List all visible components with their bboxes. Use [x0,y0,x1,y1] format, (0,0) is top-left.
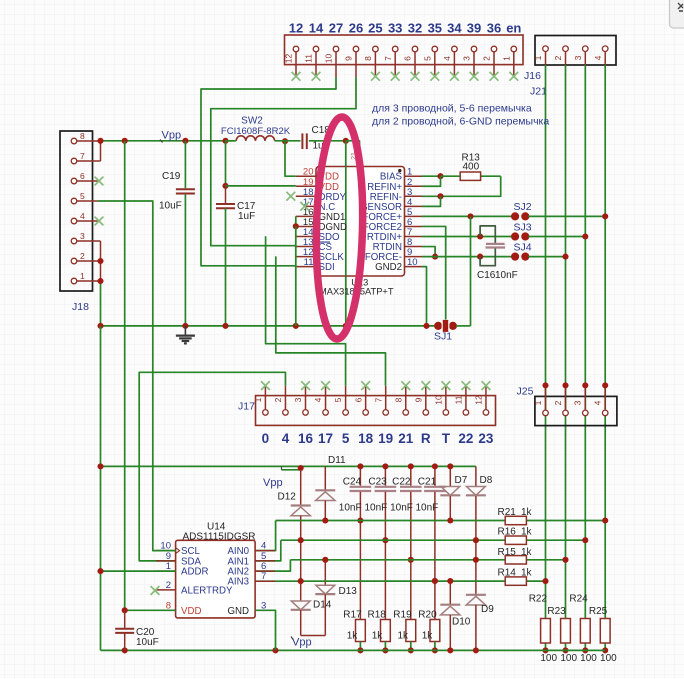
svg-text:SJ4: SJ4 [514,242,532,254]
J18 pin 1 [77,280,101,282]
J25 pin 4 [604,385,606,409]
resistor R16 leads [526,539,585,541]
J17 pin 12 [485,386,487,410]
U13 pin 16 stub [296,215,316,217]
J17 pin 5 [345,386,347,410]
svg-text:11: 11 [304,257,314,268]
junction Vpp rail / U13 VDD branch [282,138,288,144]
junction row / C24 [357,517,363,523]
junction GND rail / C19 [182,323,188,329]
J25 pin 2 [565,385,567,409]
svg-text:32: 32 [408,21,422,36]
junction AIN0 / D13col [322,517,328,523]
wire through U13 body (C18 node to GND) [345,167,347,277]
J18 pin 2 [77,260,101,262]
svg-text:19: 19 [378,431,393,446]
svg-text:R25: R25 [589,606,608,617]
U14 pin 4 stub [255,550,275,552]
wire U14 ADDR from GND vertical [101,570,176,572]
svg-text:C21: C21 [418,477,437,488]
svg-text:1uF: 1uF [238,211,255,222]
wire R18 to GND rail [384,642,386,651]
svg-text:34: 34 [447,21,462,36]
svg-text:10: 10 [407,257,418,268]
J16 pin 12 (12) [295,52,297,77]
J16 pin 8 no-connect X [371,72,380,81]
U14 pin 9 stub [156,560,176,562]
svg-text:GND: GND [227,606,249,617]
resistor R21 leads [526,520,605,522]
svg-text:R20: R20 [418,610,437,621]
resistor R23 [561,619,571,644]
svg-text:C16: C16 [477,270,496,281]
resistor R18 [381,620,391,642]
op-amp U14 body (ADS1115) [176,540,256,618]
svg-text:R22: R22 [529,594,548,605]
svg-text:R14: R14 [498,568,517,579]
J16 pin 2 no-connect X [490,72,499,81]
U13 pin 3 stub [405,195,423,197]
svg-text:10: 10 [324,54,334,64]
svg-text:J17: J17 [238,401,255,413]
junction GND rail / R22 [542,647,548,653]
capacitor C22 [410,466,412,485]
svg-text:2: 2 [273,397,283,402]
J17 pin 7 [385,386,387,410]
J16 pin 7 no-connect X [391,72,400,81]
J16 pin 6 no-connect X [411,72,420,81]
junction SJ4 / J21.2 [562,254,568,260]
J16 pin 11 no-connect X [312,72,321,81]
capacitor C18 [301,133,303,149]
J16 pin 9 (26) [355,52,357,77]
junction rail / C21 [432,463,438,469]
svg-text:1: 1 [533,55,543,60]
J17 pin 4 [325,386,327,410]
U14 pin 7 stub [255,580,275,582]
U13 pin 20 stub [296,175,316,177]
J16 pin 8 (25) [374,52,376,77]
capacitor C19 [184,141,186,188]
svg-text:33: 33 [388,21,402,36]
J17 pin 6 [365,386,367,410]
capacitor C20 [124,610,126,628]
svg-text:2: 2 [553,400,563,405]
svg-text:5: 5 [333,397,343,402]
junction J25 pin 4 [602,382,608,388]
svg-text:18: 18 [358,431,374,446]
svg-text:D14: D14 [313,600,332,611]
svg-text:10uF: 10uF [136,637,159,648]
svg-text:D11: D11 [328,455,346,466]
wire C22 to R19 [410,560,412,620]
wire SENSOR tie [422,196,441,206]
svg-text:4: 4 [593,55,603,60]
svg-text:10nF: 10nF [416,503,439,514]
svg-text:36: 36 [487,21,501,36]
svg-text:1k: 1k [521,547,533,558]
J17 pin 8 [405,386,407,410]
J18 pin 5 [77,200,98,202]
resistor R24 [580,619,590,644]
wire R23 bottom to GND rail [565,643,567,650]
wire J21 pin 2 vertical bus [565,65,567,620]
junction AIN0 / D7 [447,517,453,523]
svg-text:10nF: 10nF [495,270,518,281]
wire C18 to BIAS-node [309,140,346,142]
U14 pin 8 stub [156,609,176,611]
svg-text:SJ1: SJ1 [434,331,452,343]
wire Vpp rail [101,140,234,142]
svg-text:en: en [506,21,521,36]
resistor R20 [430,620,440,642]
J16 pin 1 (en) [513,52,515,77]
junction bottom rail / D9col [473,647,479,653]
svg-text:ADS1115IDGSR: ADS1115IDGSR [183,532,256,543]
solder jumper SJ1 [434,322,442,330]
J16 pin 10 (27) [335,52,337,77]
junction U14 VDD / Vpp [122,607,128,613]
junction rail / C22 [408,463,414,469]
J21 pin 2 [565,52,567,65]
wire C24 to R17 [359,521,361,620]
U13 pin 17 no-connect X [300,202,309,211]
junction GND rail / FORCE2-GND2 [423,323,429,329]
junction R14 / R22 bus [542,578,548,584]
svg-text:25: 25 [368,21,382,36]
U14 SCL clock mark [176,548,180,554]
junction BIAS/REFIN+ [437,173,443,179]
resistor R13 leads [441,175,461,177]
wire U14 SCL from J18.5 [98,201,176,551]
svg-text:R16: R16 [498,527,517,538]
svg-text:3: 3 [573,55,583,60]
resistor R19 [406,620,416,642]
wire J18 pin1 down to GND rail [100,281,102,326]
connector J17 box [256,396,496,426]
junction C17 / VDD19 wire [222,183,228,189]
U13 pin 4 stub [405,205,423,207]
svg-text:2: 2 [80,251,85,261]
J17 pin 11 [465,386,467,410]
junction bottom rail / U14 GND [272,647,278,653]
svg-text:6: 6 [80,171,85,181]
resistor R14 leads [526,580,545,582]
J16 pin 5 (35) [434,52,436,77]
U14 pin 5 stub [255,560,275,562]
diode D11 [324,466,326,490]
J16 pin 4 (34) [453,52,455,77]
svg-text:SJ3: SJ3 [514,221,532,233]
svg-text:12: 12 [284,54,294,64]
svg-text:3: 3 [462,56,472,61]
svg-text:9: 9 [344,56,354,61]
wire coil to C18 [275,140,301,142]
J17 pin 9 [425,386,427,410]
wire GND rail [101,325,436,327]
junction C18 node [343,138,349,144]
svg-text:Vpp: Vpp [263,477,283,489]
wire AIN2 row [290,559,505,561]
svg-text:100: 100 [560,653,577,664]
J17 pin 10 no-connect X [441,381,450,390]
svg-text:D7: D7 [455,475,468,486]
svg-text:8: 8 [393,397,403,402]
svg-text:R23: R23 [547,606,566,617]
junction GND rail / R19 [408,647,414,653]
junction DGND [293,223,299,229]
U14 pin 1 stub [156,570,176,572]
svg-text:J21: J21 [530,86,547,98]
J21 pin 3 [584,52,586,65]
svg-text:J18: J18 [72,301,89,313]
wire C21 to R20 [434,581,436,620]
svg-text:C19: C19 [162,171,181,182]
U13 pin 14 stub [296,236,316,238]
U13 pin 15 stub [296,225,316,227]
wire AIN2 jog [255,560,290,571]
U13 pin 10 stub [405,266,423,268]
wire C17 branch vertical [225,141,227,186]
wire BIAS node [422,175,441,177]
svg-text:3: 3 [573,400,583,405]
diode D7 [449,466,451,486]
svg-text:16: 16 [298,431,314,446]
wire C18 node to U13 top pin [346,141,360,146]
J17 pin 10 [445,386,447,410]
svg-text:7: 7 [383,56,393,61]
wire AIN0 jog [255,521,276,551]
svg-text:21: 21 [398,431,414,446]
wire Vpp label stub [282,469,301,471]
U14 pin 2 no-connect X [151,586,160,595]
junction GND rail / R17 [357,647,363,653]
U14 pin 3 stub [255,609,275,611]
wire R22 bottom to GND rail [545,643,547,650]
svg-text:SW2: SW2 [241,116,263,127]
svg-text:1k: 1k [422,631,434,642]
svg-text:для 2 проводной, 6-GND перемыч: для 2 проводной, 6-GND перемычка [372,116,549,128]
wire DGND down to GND rail [295,226,297,326]
svg-text:1k: 1k [521,507,533,518]
capacitor C17 [225,186,227,204]
junction rail / D7 [447,463,453,469]
svg-text:R19: R19 [393,610,412,621]
svg-text:D8: D8 [480,475,493,486]
svg-text:100: 100 [600,653,617,664]
solder jumper SJ3 [511,232,519,240]
svg-text:35: 35 [428,21,442,36]
junction J18 pin1 [97,278,103,284]
svg-text:100: 100 [540,653,557,664]
svg-text:R18: R18 [368,610,387,621]
junction R15 / R23 bus [562,557,568,563]
svg-text:7: 7 [373,397,383,402]
resistor R21 [505,516,526,524]
junction J25 pin 2 [562,382,568,388]
svg-text:5: 5 [422,56,432,61]
wire J16 pin9 (26) to U13 CS [211,77,356,246]
svg-text:7: 7 [80,151,85,161]
diode D12 [300,470,302,506]
wire U14 GND to rail [255,610,275,650]
wire C16 top bracket [480,226,495,243]
junction J25 pin 1 [542,382,548,388]
svg-text:4: 4 [282,431,290,446]
svg-text:14: 14 [309,21,324,36]
U13 pin 8 stub [405,246,423,248]
junction AIN1 / D8 [473,537,479,543]
junction J18 pin2 [97,258,103,264]
junction SJ3 / J21.3 [582,233,588,239]
U13 pin 12 stub [296,256,316,258]
U13 CS overbar [319,241,331,243]
J17 pin 11 no-connect X [462,381,471,390]
svg-text:D9: D9 [481,604,494,615]
J21 pin 1 [545,52,547,65]
J16 pin 11 (14) [315,52,317,77]
svg-text:10uF: 10uF [159,201,182,212]
junction row / C22 [408,557,414,563]
junction FORCE- branch [477,254,483,260]
svg-text:12: 12 [289,21,303,36]
junction GND rail / R25 [602,647,608,653]
connector J25 box [535,396,617,425]
J16 pin 2 (36) [493,52,495,77]
wire RTDIN tie to FORCE- [422,247,435,257]
U13 top pin 21 [359,146,361,167]
junction AIN2 / D13 [322,557,328,563]
J18 pin 6 [77,180,98,182]
svg-text:1k: 1k [398,631,410,642]
browser UI scrap (decorative corner) [670,0,684,28]
wire bottom GND rail [101,649,606,651]
junction R16 / R24 bus [582,537,588,543]
wire D8-D9 column [475,540,477,594]
svg-text:11: 11 [454,395,464,404]
U13 pin 11 stub [296,266,316,268]
svg-text:T: T [442,431,451,446]
junction rail / D12 [298,465,304,471]
resistor R15 [505,556,526,564]
wire RTDIN+ row to SJ3 [422,236,512,238]
J16 pin 12 no-connect X [292,72,301,81]
svg-text:ADDR: ADDR [181,567,208,578]
resistor R14 [505,577,526,585]
annotation ellipse (hand-drawn pink oval) [314,117,365,340]
J21 pin 4 [604,52,606,65]
wire J21 pin 1 vertical bus [545,65,547,620]
junction AIN3 / D14 [298,578,304,584]
wire J21 pin 4 vertical bus [604,65,606,620]
wire Vpp-prime top rail [101,465,476,467]
U13 pin 2 stub [405,185,423,187]
wire R25 bottom to GND rail [604,643,606,650]
connector J18 box [60,131,93,291]
wire FORCE- row to SJ4 [422,256,512,258]
svg-text:0: 0 [262,431,270,446]
J17 pin 2 [284,386,286,410]
solder jumper SJ2 [511,212,519,220]
wire Vpp rail to coil [226,140,237,142]
wire AIN0 row [276,520,506,522]
svg-text:R21: R21 [498,507,517,518]
capacitor C21 [434,466,436,485]
junction rail / GND-left vertical [97,463,103,469]
J16 pin 3 no-connect X [470,72,479,81]
svg-text:3: 3 [80,231,85,241]
junction Vpp rail / C19 [182,138,188,144]
U13 pin 5 stub [405,215,423,217]
svg-text:для 3 проводной, 5-6 перемычка: для 3 проводной, 5-6 перемычка [372,103,532,115]
wire R20 to GND rail [434,642,436,651]
op-amp U13 body (MAX31865) [316,167,405,277]
svg-text:ALERTRDY: ALERTRDY [181,585,233,596]
svg-text:1k: 1k [347,631,359,642]
J17 pin 6 no-connect X [361,381,370,390]
wire Vpp vertical to U14 VDD [124,141,126,611]
svg-text:2: 2 [166,580,171,591]
svg-text:D13: D13 [339,586,358,597]
J18 pin 6 no-connect X [95,177,104,186]
diode D13 [324,560,326,586]
resistor R13 [460,172,480,180]
svg-text:C23: C23 [368,477,387,488]
svg-text:SJ2: SJ2 [514,201,532,213]
svg-text:5: 5 [342,431,350,446]
resistor R16 [505,536,526,544]
junction GND rail / C18 node [343,323,349,329]
wire SCLK to J17 pin7 [276,256,386,385]
svg-text:39: 39 [467,21,481,36]
junction AIN1 / D12col [298,537,304,543]
svg-text:C22: C22 [392,477,411,488]
svg-text:4: 4 [313,397,323,402]
U13 pin 7 stub [405,236,423,238]
svg-text:27: 27 [329,21,343,36]
svg-text:D12: D12 [278,492,297,503]
svg-text:1k: 1k [521,527,533,538]
svg-text:6: 6 [403,56,413,61]
J18 pin 7 [77,160,101,162]
junction row / C23 [382,537,388,543]
resistor R17 [356,620,366,642]
svg-text:1k: 1k [372,631,384,642]
wire FORCE+ row to SJ2 [422,215,512,217]
junction RTDIN+ branch [477,233,483,239]
J17 pin 4 no-connect X [321,381,330,390]
J17 pin 1 no-connect X [261,381,270,390]
svg-text:26: 26 [349,21,363,36]
diode D14 [300,581,302,601]
svg-text:R: R [421,431,431,446]
svg-text:J25: J25 [517,386,534,398]
svg-text:1: 1 [533,400,543,405]
svg-text:8: 8 [363,56,373,61]
svg-text:4: 4 [80,211,85,221]
wire D13-D14 Vpp link [301,635,326,637]
junction bottom rail / D10col [447,647,453,653]
J18 pin 4 [77,220,98,222]
wire SJ1 to FORCE+ branch [456,325,471,327]
junction GND rail / R20 [432,647,438,653]
wire FORCE2 to GND jumper SJ1 [422,226,446,319]
svg-text:4: 4 [442,56,452,61]
svg-text:7: 7 [261,571,266,582]
junction rail / C23 [382,463,388,469]
wire GND2 to GND rail [422,267,427,326]
U13 pin 1 stub [405,175,423,177]
